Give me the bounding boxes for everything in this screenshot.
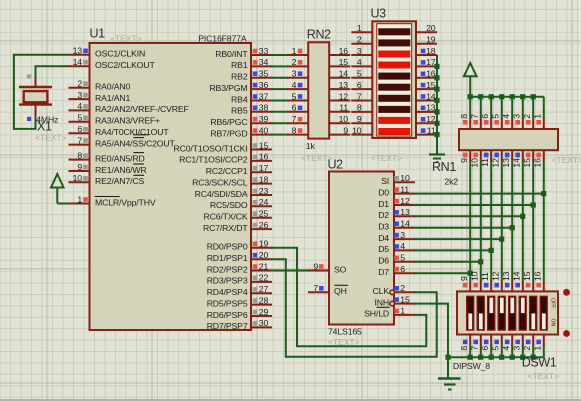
- svg-text:7: 7: [77, 135, 82, 145]
- svg-text:2: 2: [357, 35, 362, 45]
- crystal X1 reference label: [37, 120, 52, 134]
- svg-text:RC3/SCK/SCL: RC3/SCK/SCL: [192, 177, 248, 187]
- svg-text:RN1: RN1: [432, 160, 456, 174]
- svg-text:19: 19: [426, 35, 436, 45]
- svg-text:7: 7: [470, 346, 480, 351]
- wire VCC arrow to U1 pin1 MCLR: [57, 203, 68, 205]
- wire U2 INH(15) to ground bus: [414, 304, 448, 358]
- svg-text:5: 5: [292, 91, 297, 101]
- svg-text:8: 8: [459, 114, 469, 119]
- DSW1 reference label: [522, 356, 557, 370]
- svg-text:5: 5: [491, 346, 501, 351]
- DSW1 actuator dot upper: [563, 289, 570, 296]
- power symbol (VCC arrow) at MCLR: [51, 174, 64, 204]
- svg-text:RD1/PSP1: RD1/PSP1: [207, 253, 248, 263]
- RN1 reference label: [432, 160, 456, 174]
- svg-text:D6: D6: [378, 256, 389, 266]
- svg-text:7: 7: [357, 91, 362, 101]
- svg-text:11: 11: [400, 184, 409, 194]
- U2 part value 74LS165: [328, 327, 362, 337]
- svg-text:29: 29: [259, 307, 269, 317]
- svg-text:14: 14: [400, 219, 410, 229]
- svg-text:20: 20: [426, 23, 436, 33]
- wire DSW1 common bus: [448, 356, 544, 358]
- svg-text:RB1: RB1: [231, 60, 248, 70]
- RN1 bottom pins 9-16 (stubs, state squares, rotated numbers): [459, 150, 544, 167]
- DSW1 top pins 9-16 (stubs, state squares, rotated numbers): [459, 271, 544, 291]
- svg-text:10: 10: [400, 173, 410, 183]
- svg-text:D1: D1: [378, 199, 389, 209]
- svg-text:QH: QH: [334, 286, 347, 296]
- svg-text:3: 3: [292, 69, 297, 79]
- svg-text:RB6/PGC: RB6/PGC: [210, 117, 247, 127]
- svg-text:<TEXT>: <TEXT>: [35, 133, 67, 143]
- RN2 value 1k: [306, 141, 316, 151]
- U1 left pins (stubs, numbers, state squares, names): [69, 46, 189, 208]
- svg-text:OFF: OFF: [550, 298, 556, 308]
- svg-text:7: 7: [313, 283, 318, 293]
- U3 right pins 20-11 (stubs, numbers, state squares): [416, 23, 437, 135]
- svg-text:25: 25: [259, 209, 269, 219]
- svg-text:28: 28: [259, 295, 269, 305]
- ground symbol below DSW1 bus: [438, 357, 461, 389]
- svg-text:1: 1: [357, 23, 362, 33]
- svg-text:4: 4: [501, 346, 511, 351]
- svg-text:4: 4: [292, 80, 297, 90]
- crystal X1 value 4MHz: [36, 114, 58, 124]
- U2 INH inversion bubble: [390, 301, 395, 306]
- wires U1 RB0-RB7 to RN2 pins 1-8: [271, 55, 288, 135]
- svg-text:16: 16: [339, 46, 349, 56]
- svg-text:3: 3: [400, 230, 405, 240]
- DSW1 <TEXT> placeholder: [527, 371, 559, 381]
- svg-text:RC7/RX/DT: RC7/RX/DT: [203, 223, 248, 233]
- DSW1 actuator dot lower: [563, 330, 570, 337]
- svg-text:1: 1: [400, 306, 405, 316]
- svg-text:39: 39: [259, 114, 269, 124]
- svg-text:RA4/T0CKI/C1OUT: RA4/T0CKI/C1OUT: [95, 127, 169, 137]
- svg-text:36: 36: [259, 80, 269, 90]
- svg-text:9: 9: [357, 114, 362, 124]
- svg-text:INH: INH: [374, 297, 389, 307]
- svg-text:4: 4: [357, 57, 362, 67]
- RN2 right pins 16-9 (stubs, numbers): [329, 46, 350, 136]
- svg-text:RD5/PSP5: RD5/PSP5: [207, 298, 248, 308]
- svg-text:27: 27: [259, 284, 269, 294]
- svg-text:SI: SI: [381, 176, 389, 186]
- svg-text:RE0/AN5/RD: RE0/AN5/RD: [95, 153, 145, 163]
- svg-text:RC1/T1OSI/CCP2: RC1/T1OSI/CCP2: [179, 155, 248, 165]
- svg-text:4: 4: [77, 101, 82, 111]
- svg-text:<TEXT>: <TEXT>: [527, 371, 559, 381]
- svg-text:33: 33: [259, 46, 269, 56]
- svg-text:15: 15: [259, 140, 269, 150]
- svg-text:ON: ON: [550, 319, 556, 327]
- svg-text:1: 1: [533, 346, 543, 351]
- svg-text:34: 34: [259, 57, 269, 67]
- svg-text:1: 1: [77, 194, 82, 204]
- crystal X1 state square (bottom, blue): [27, 117, 31, 121]
- resistor network RN2 body: [308, 42, 329, 138]
- svg-text:U3: U3: [371, 7, 387, 21]
- svg-text:13: 13: [339, 80, 349, 90]
- svg-text:RA1/AN1: RA1/AN1: [95, 93, 130, 103]
- svg-text:RB3/PGM: RB3/PGM: [209, 83, 247, 93]
- svg-text:RE2/AN7/CS: RE2/AN7/CS: [95, 176, 145, 186]
- svg-text:37: 37: [259, 91, 269, 101]
- ground symbol below U3: [429, 151, 445, 162]
- svg-text:RD4/PSP4: RD4/PSP4: [207, 287, 248, 297]
- svg-text:RC6/TX/CK: RC6/TX/CK: [203, 212, 247, 222]
- svg-text:D7: D7: [378, 267, 389, 277]
- svg-text:14: 14: [426, 91, 436, 101]
- power symbol (VCC arrow) above RN1: [464, 63, 477, 97]
- svg-text:SO: SO: [334, 264, 347, 274]
- svg-text:13: 13: [73, 46, 83, 56]
- svg-text:16: 16: [533, 271, 543, 281]
- crystal X1 symbol: [19, 79, 52, 118]
- svg-text:21: 21: [259, 261, 269, 271]
- U3 <TEXT> placeholder: [371, 153, 403, 163]
- svg-text:5: 5: [400, 253, 405, 263]
- svg-text:35: 35: [259, 69, 269, 79]
- svg-text:X1: X1: [37, 120, 52, 134]
- svg-text:2: 2: [292, 57, 297, 67]
- svg-text:6: 6: [400, 264, 405, 274]
- U2 left pins SO(9) and QH(7): [308, 261, 348, 296]
- U1 right pins (stubs, numbers, state squares, names): [173, 46, 272, 331]
- svg-text:CLK: CLK: [373, 286, 390, 296]
- op-amp n/a; U1 PIC16F877A microcontroller body: [90, 43, 252, 330]
- DSW1 switch sliders (1,2,7,8 up; 3-6 down) with ON/OFF legend: [467, 296, 556, 330]
- svg-text:OSC2/CLKOUT: OSC2/CLKOUT: [95, 60, 156, 70]
- svg-text:DIPSW_8: DIPSW_8: [453, 361, 490, 371]
- svg-text:1k: 1k: [306, 141, 316, 151]
- svg-text:6: 6: [480, 346, 490, 351]
- svg-text:RC0/T1OSO/T1CKI: RC0/T1OSO/T1CKI: [173, 143, 247, 153]
- svg-text:U1: U1: [90, 27, 106, 41]
- svg-text:RN2: RN2: [307, 27, 331, 41]
- svg-text:30: 30: [259, 318, 269, 328]
- svg-text:15: 15: [426, 80, 436, 90]
- svg-text:74LS165: 74LS165: [328, 327, 362, 337]
- RN2 <TEXT> placeholder: [301, 153, 333, 163]
- wire U1 RD2(21) to U2 SO(9): [271, 270, 309, 272]
- svg-text:D0: D0: [378, 187, 389, 197]
- resistor network RN1 body: [459, 129, 558, 150]
- svg-text:1: 1: [292, 46, 297, 56]
- DSW1 part value DIPSW_8: [453, 361, 490, 371]
- svg-text:7: 7: [292, 114, 297, 124]
- svg-text:40: 40: [259, 125, 269, 135]
- U1 <TEXT> placeholder: [110, 33, 142, 43]
- svg-text:14: 14: [73, 57, 83, 67]
- svg-text:2: 2: [77, 79, 82, 89]
- svg-text:15: 15: [339, 57, 349, 67]
- svg-text:8: 8: [292, 125, 297, 135]
- svg-text:DSW1: DSW1: [522, 356, 557, 370]
- svg-text:6: 6: [292, 103, 297, 113]
- svg-text:13: 13: [426, 103, 436, 113]
- svg-text:RB5: RB5: [231, 106, 248, 116]
- svg-text:8: 8: [357, 103, 362, 113]
- svg-text:18: 18: [426, 46, 436, 56]
- svg-text:5: 5: [77, 113, 82, 123]
- svg-text:D2: D2: [378, 210, 389, 220]
- svg-text:14: 14: [339, 69, 349, 79]
- svg-text:12: 12: [491, 271, 501, 281]
- RN1 <TEXT> placeholder: [552, 155, 581, 165]
- svg-text:8: 8: [459, 346, 469, 351]
- svg-text:14: 14: [512, 271, 522, 281]
- svg-text:4: 4: [400, 241, 405, 251]
- svg-text:RA2/AN2/VREF-/CVREF: RA2/AN2/VREF-/CVREF: [95, 104, 189, 114]
- junctions on DSW1 common bus: [445, 355, 535, 360]
- svg-text:RC5/SDO: RC5/SDO: [210, 200, 248, 210]
- svg-text:RB7/PGD: RB7/PGD: [210, 128, 247, 138]
- wires U2 D0-D7 to pull-up/DIP columns: [414, 194, 544, 274]
- svg-text:2: 2: [400, 283, 405, 293]
- svg-text:RC2/CCP1: RC2/CCP1: [206, 166, 248, 176]
- junctions on U3 right ground bus: [434, 64, 439, 137]
- wires RN1 bottom pins to DSW1 top pins (columns): [470, 161, 544, 281]
- U2 CLK inversion bubble: [390, 290, 395, 295]
- svg-text:RB0/INT: RB0/INT: [215, 49, 248, 59]
- svg-text:18: 18: [259, 174, 269, 184]
- svg-text:RB2: RB2: [231, 72, 248, 82]
- U2 <TEXT> placeholder: [328, 337, 360, 347]
- wire U1 pin14 OSC2 to crystal top node: [36, 66, 69, 79]
- svg-text:RD0/PSP0: RD0/PSP0: [207, 242, 248, 252]
- RN1 top pins 8-1 (stubs, state squares, rotated numbers): [459, 114, 544, 129]
- svg-text:17: 17: [259, 163, 269, 173]
- svg-text:13: 13: [400, 207, 410, 217]
- svg-text:5: 5: [357, 69, 362, 79]
- svg-text:6: 6: [357, 80, 362, 90]
- svg-text:26: 26: [259, 220, 269, 230]
- svg-text:3: 3: [77, 90, 82, 100]
- svg-text:15: 15: [400, 294, 410, 304]
- svg-text:2k2: 2k2: [444, 177, 458, 187]
- U3 inner display panel: [377, 24, 412, 136]
- svg-text:3: 3: [512, 346, 522, 351]
- svg-text:16: 16: [426, 69, 436, 79]
- U2 right pins (stubs, numbers, state squares, names): [364, 173, 415, 319]
- svg-text:RA3/AN3/VREF+: RA3/AN3/VREF+: [95, 116, 160, 126]
- crystal X1 <TEXT> placeholder: [35, 133, 67, 143]
- wire U1 pin13 OSC1 to crystal bottom node: [14, 55, 69, 129]
- svg-text:17: 17: [426, 57, 436, 67]
- svg-text:RD7/PSP7: RD7/PSP7: [207, 321, 248, 331]
- svg-text:10: 10: [339, 114, 349, 124]
- RN2 left pins 1-8 (stubs, numbers, state squares): [287, 46, 308, 136]
- svg-text:12: 12: [339, 91, 349, 101]
- svg-text:12: 12: [400, 196, 410, 206]
- U3 reference label: [371, 7, 387, 21]
- svg-text:RA0/AN0: RA0/AN0: [95, 82, 130, 92]
- crystal X1 state square (top, gray): [27, 74, 31, 78]
- wire U1 RD0(19) to U2 SH/LD(1): [271, 248, 426, 346]
- RN2 reference label: [307, 27, 331, 41]
- svg-text:38: 38: [259, 103, 269, 113]
- svg-text:9: 9: [459, 276, 469, 281]
- svg-text:20: 20: [259, 250, 269, 260]
- svg-text:RD3/PSP3: RD3/PSP3: [207, 276, 248, 286]
- svg-text:OSC1/CLKIN: OSC1/CLKIN: [95, 49, 145, 59]
- svg-text:PIC16F877A: PIC16F877A: [198, 33, 247, 43]
- U3 left pins 1-10 (stubs, numbers): [351, 23, 372, 135]
- svg-text:<TEXT>: <TEXT>: [110, 33, 142, 43]
- svg-text:U2: U2: [328, 158, 344, 172]
- svg-text:9: 9: [313, 261, 318, 271]
- svg-text:11: 11: [339, 103, 348, 113]
- svg-text:<TEXT>: <TEXT>: [371, 153, 403, 163]
- svg-text:19: 19: [259, 239, 269, 249]
- LED bargraph U3 body: [372, 21, 416, 138]
- svg-text:9: 9: [77, 162, 82, 172]
- svg-text:3: 3: [357, 46, 362, 56]
- svg-text:16: 16: [259, 152, 269, 162]
- svg-text:11: 11: [480, 272, 490, 281]
- svg-text:RE1/AN6/WR: RE1/AN6/WR: [95, 165, 147, 175]
- svg-text:10: 10: [352, 125, 362, 135]
- svg-text:24: 24: [259, 197, 269, 207]
- shift register U2 74LS165 body: [329, 172, 394, 325]
- svg-text:RD6/PSP6: RD6/PSP6: [207, 310, 248, 320]
- RN1 value 2k2: [444, 177, 458, 187]
- svg-text:9: 9: [459, 158, 469, 163]
- svg-text:D3: D3: [378, 222, 389, 232]
- U3 LED bar segments (bars 3,4,9,10 lit): [378, 28, 410, 135]
- junctions D0-D7 columns: [468, 191, 547, 276]
- svg-text:RD2/PSP2: RD2/PSP2: [207, 264, 248, 274]
- DSW1 bottom pins 8-1 (stubs, state squares, rotated numbers, wires to bus): [459, 335, 544, 358]
- svg-text:RA5/AN4/SS/C2OUT: RA5/AN4/SS/C2OUT: [95, 138, 176, 148]
- svg-text:10: 10: [470, 271, 480, 281]
- svg-text:<TEXT>: <TEXT>: [552, 155, 581, 165]
- svg-text:10: 10: [73, 173, 83, 183]
- svg-text:9: 9: [343, 125, 348, 135]
- svg-text:12: 12: [426, 114, 436, 124]
- U1 part value PIC16F877A: [198, 33, 247, 43]
- svg-text:D4: D4: [378, 233, 389, 243]
- svg-text:2: 2: [522, 346, 532, 351]
- svg-text:RB4: RB4: [231, 94, 248, 104]
- svg-text:SH/LD: SH/LD: [364, 309, 389, 319]
- wire U1 RD1(20) to U2 CLK(2): [271, 259, 437, 357]
- U2 reference label: [328, 158, 344, 172]
- U1 reference label: [90, 27, 106, 41]
- DIP switch DSW1 body: [457, 291, 558, 334]
- wire VCC bus to RN1 top pins: [470, 97, 544, 119]
- svg-text:D5: D5: [378, 244, 389, 254]
- svg-text:15: 15: [522, 271, 532, 281]
- svg-text:22: 22: [259, 273, 269, 283]
- svg-text:MCLR/Vpp/THV: MCLR/Vpp/THV: [95, 197, 156, 207]
- svg-text:RC4/SDI/SDA: RC4/SDI/SDA: [195, 189, 248, 199]
- svg-text:6: 6: [77, 124, 82, 134]
- svg-text:8: 8: [77, 150, 82, 160]
- svg-text:13: 13: [501, 271, 511, 281]
- wire U3 right pins bus to ground: [436, 55, 438, 151]
- svg-text:23: 23: [259, 186, 269, 196]
- junctions on VCC bus: [468, 94, 536, 99]
